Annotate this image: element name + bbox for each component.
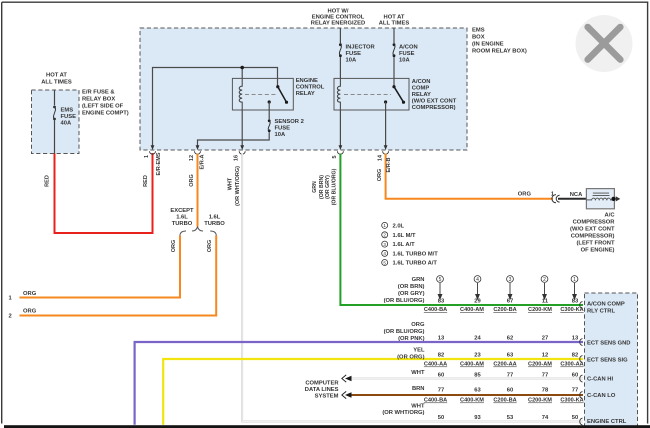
wire: A/CON relay common to pin 14 — [385, 102, 387, 148]
svg-text:62: 62 — [507, 336, 513, 342]
svg-text:SENSOR 2: SENSOR 2 — [275, 119, 304, 125]
svg-text:4: 4 — [476, 277, 479, 283]
svg-text:78: 78 — [542, 388, 549, 394]
label: HOT AT ALL TIMES (top) — [379, 15, 410, 27]
svg-text:RELAY: RELAY — [296, 91, 315, 97]
svg-text:A/CON: A/CON — [412, 79, 431, 85]
svg-text:63: 63 — [507, 353, 514, 359]
svg-text:ORG: ORG — [189, 174, 195, 187]
svg-text:C400-AM: C400-AM — [460, 362, 484, 368]
legend circled numbers — [382, 222, 388, 265]
svg-text:82: 82 — [438, 353, 444, 359]
mechanical link (dashed) — [245, 94, 276, 96]
svg-text:COMPRESSOR: COMPRESSOR — [573, 220, 616, 226]
svg-text:93: 93 — [474, 415, 481, 421]
svg-text:24: 24 — [474, 336, 481, 342]
svg-text:(IN ENGINE: (IN ENGINE — [472, 42, 504, 48]
variant arrows above green wire — [438, 283, 576, 299]
svg-text:C-CAN LO: C-CAN LO — [587, 393, 616, 399]
svg-text:TURBO: TURBO — [172, 221, 193, 227]
svg-text:FUSE: FUSE — [399, 51, 415, 57]
junction: top feed wire — [240, 66, 244, 70]
svg-text:A/CON COMP: A/CON COMP — [587, 302, 625, 308]
pin arrows at EMS box edge — [151, 145, 388, 150]
svg-text:14: 14 — [377, 154, 383, 161]
svg-text:83: 83 — [572, 299, 579, 305]
svg-text:2: 2 — [543, 277, 546, 283]
label: HOT W/ ENGINE CONTROL RELAY ENERGIZED — [311, 9, 365, 27]
svg-text:E/R-B: E/R-B — [386, 157, 392, 172]
A/C compressor M1 box — [586, 189, 614, 209]
svg-text:13: 13 — [572, 336, 579, 342]
switch contacts of A/CON comp relay — [384, 85, 405, 104]
svg-text:53: 53 — [507, 415, 514, 421]
bottom connector pin numbers — [438, 299, 579, 422]
svg-text:2: 2 — [9, 314, 12, 320]
svg-text:C200-BA: C200-BA — [493, 398, 516, 404]
svg-text:RELAY ENERGIZED: RELAY ENERGIZED — [311, 21, 365, 27]
svg-text:85: 85 — [474, 372, 481, 378]
svg-text:FUSE: FUSE — [346, 51, 362, 57]
svg-text:COMPUTER: COMPUTER — [305, 381, 339, 387]
label: EXCEPT 1.6L TURBO — [170, 208, 194, 227]
svg-text:77: 77 — [438, 388, 444, 394]
svg-text:NCA: NCA — [570, 192, 583, 198]
svg-text:C300-KA: C300-KA — [560, 398, 583, 404]
svg-text:C300-KA: C300-KA — [560, 307, 583, 313]
svg-text:BRN: BRN — [412, 386, 425, 392]
relay K1: ENGINE CONTROL RELAY box — [232, 78, 293, 110]
connector names row 1 (GRN) — [424, 307, 584, 404]
svg-text:(OR BLU/ORG): (OR BLU/ORG) — [384, 298, 425, 304]
fuse INJECTOR 10A feed wire — [339, 28, 341, 43]
wire: sensor 2 fuse to pin 12 — [198, 132, 270, 147]
svg-text:1: 1 — [383, 223, 386, 228]
variant circled numbers 5 4 3 2 1 — [437, 276, 578, 283]
svg-text:(OR WHT/ORG): (OR WHT/ORG) — [235, 166, 241, 206]
switch contacts of engine control relay — [268, 85, 289, 104]
svg-text:5: 5 — [439, 277, 442, 283]
svg-text:(LEFT SIDE OF: (LEFT SIDE OF — [82, 104, 124, 110]
svg-text:OF ENGINE): OF ENGINE) — [581, 248, 615, 254]
svg-text:29: 29 — [474, 299, 481, 305]
svg-text:C400-KM: C400-KM — [460, 398, 484, 404]
splice symbol (branch) — [180, 227, 216, 236]
svg-text:C400-BA: C400-BA — [424, 398, 447, 404]
svg-text:ORG: ORG — [171, 240, 177, 253]
wire: injector fuse to A/CON relay coil — [339, 57, 341, 78]
svg-text:63: 63 — [474, 388, 481, 394]
svg-text:E/R-A: E/R-A — [200, 154, 206, 169]
wire GRN: pin 5 to ECM A/CON COMP RLY CTRL — [340, 154, 583, 306]
label: 1.6L TURBO — [204, 215, 225, 228]
svg-text:1.6L M/T: 1.6L M/T — [393, 233, 417, 239]
coil of engine control relay — [239, 78, 242, 110]
svg-text:ALL TIMES: ALL TIMES — [41, 80, 72, 86]
svg-text:13: 13 — [438, 336, 445, 342]
svg-text:82: 82 — [572, 353, 578, 359]
wire: battery feed into EMS fuse — [54, 90, 56, 105]
label: HOT AT ALL TIMES (left) — [41, 73, 72, 86]
legend text — [393, 223, 439, 266]
svg-text:ORG: ORG — [23, 291, 37, 297]
svg-text:(OR WHT/ORG): (OR WHT/ORG) — [382, 410, 424, 416]
svg-text:(W/O EXT CONT: (W/O EXT CONT — [412, 99, 457, 105]
svg-text:WHT: WHT — [228, 177, 234, 190]
svg-text:COMP: COMP — [412, 86, 430, 92]
svg-text:A/C: A/C — [605, 213, 616, 219]
ECM pin cups — [580, 302, 583, 426]
svg-text:50: 50 — [572, 415, 578, 421]
svg-text:12: 12 — [542, 353, 548, 359]
wire: engine control relay coil to pin 16 — [241, 110, 243, 148]
svg-text:COMPRESSOR): COMPRESSOR) — [412, 105, 456, 111]
svg-text:60: 60 — [438, 372, 444, 378]
svg-text:10A: 10A — [399, 58, 410, 64]
svg-text:1.6L: 1.6L — [209, 215, 221, 221]
svg-text:(OR BRN): (OR BRN) — [319, 175, 325, 199]
svg-text:EMS: EMS — [61, 108, 74, 114]
svg-text:1.6L: 1.6L — [176, 215, 188, 221]
svg-text:C200-KM: C200-KM — [528, 307, 552, 313]
wire WHT: C-CAN HI — [351, 378, 583, 380]
inline connector at compressor — [552, 195, 560, 203]
svg-text:10A: 10A — [275, 132, 286, 138]
svg-text:(OR PNK): (OR PNK) — [398, 336, 424, 342]
svg-text:ALL TIMES: ALL TIMES — [379, 21, 410, 27]
wire: A/CON relay coil to pin 5 — [339, 110, 341, 148]
svg-text:23: 23 — [474, 353, 481, 359]
svg-text:C400-AM: C400-AM — [460, 307, 484, 313]
svg-text:77: 77 — [542, 372, 548, 378]
off-page arrow C-CAN LO — [345, 392, 352, 397]
svg-text:C200-BA: C200-BA — [493, 307, 516, 313]
svg-text:1.6L TURBO A/T: 1.6L TURBO A/T — [393, 261, 438, 267]
wire ORG branch 2 (1.6L turbo) — [20, 236, 217, 316]
wire ORG: pin 12 down to splice — [197, 154, 199, 227]
wire WHT: pin 16 to ECM ENGINE CTRL RLY CTRL — [242, 154, 583, 422]
svg-text:27: 27 — [542, 336, 548, 342]
svg-text:RED: RED — [143, 175, 149, 187]
svg-text:ORG: ORG — [207, 240, 213, 253]
svg-text:EXCEPT: EXCEPT — [170, 208, 194, 214]
svg-text:ECT SENS SIG: ECT SENS SIG — [587, 358, 628, 364]
svg-text:BOX: BOX — [472, 35, 485, 41]
svg-text:C200-AM: C200-AM — [528, 362, 552, 368]
wire: relay common to sensor 2 fuse — [268, 102, 270, 119]
svg-text:60: 60 — [507, 388, 513, 394]
fuse SENSOR 2 10A — [268, 119, 271, 132]
svg-text:1.6L A/T: 1.6L A/T — [393, 242, 416, 248]
EMS box (engine room relay box, dashed) — [140, 28, 467, 150]
svg-text:67: 67 — [507, 299, 513, 305]
svg-text:HOT AT: HOT AT — [46, 73, 67, 79]
label: GRN wire colors (bottom) — [384, 277, 425, 304]
svg-text:(OR BLU/ORG): (OR BLU/ORG) — [332, 168, 338, 205]
fuse INJECTOR 10A — [339, 43, 342, 57]
svg-text:GRN: GRN — [312, 181, 318, 193]
svg-text:C400-AA: C400-AA — [424, 362, 447, 368]
svg-text:3: 3 — [383, 242, 386, 247]
svg-text:74: 74 — [542, 415, 549, 421]
svg-text:FUSE: FUSE — [61, 114, 77, 120]
svg-text:77: 77 — [572, 388, 578, 394]
label: COMPUTER DATA LINES SYSTEM — [305, 381, 340, 400]
compressor output node — [611, 197, 615, 201]
svg-text:ORG: ORG — [518, 192, 532, 198]
svg-text:16: 16 — [234, 155, 240, 161]
svg-text:ORG: ORG — [377, 169, 383, 182]
svg-text:C-CAN HI: C-CAN HI — [587, 377, 613, 383]
svg-text:C200-KM: C200-KM — [528, 398, 552, 404]
svg-text:EMS: EMS — [472, 28, 485, 34]
svg-text:3: 3 — [509, 277, 512, 283]
E/R fuse & relay box (left, dashed) — [32, 90, 80, 154]
svg-text:E/R FUSE &: E/R FUSE & — [82, 90, 115, 96]
svg-text:YEL: YEL — [413, 348, 425, 354]
svg-text:WHT: WHT — [411, 370, 425, 376]
svg-text:(OR BRN): (OR BRN) — [398, 284, 425, 290]
svg-text:DATA LINES: DATA LINES — [305, 387, 339, 393]
svg-text:4: 4 — [383, 251, 386, 256]
svg-text:ENGINE CTRL: ENGINE CTRL — [587, 419, 627, 425]
svg-text:(OR ORG): (OR ORG) — [397, 355, 424, 361]
svg-text:2.0L: 2.0L — [393, 223, 405, 229]
wire BRN: C-CAN LO — [351, 394, 583, 396]
ECM box (dashed, bottom right) — [585, 293, 638, 428]
svg-text:5: 5 — [383, 260, 386, 265]
off-page arrow C-CAN HI — [345, 376, 352, 381]
svg-text:11: 11 — [542, 299, 549, 305]
svg-text:RELAY BOX: RELAY BOX — [82, 97, 115, 103]
mechanical link (dashed) — [344, 94, 391, 96]
bottom window bar — [4, 425, 650, 428]
wire RED: EMS fuse to EMS box pin 1 — [55, 153, 153, 233]
svg-text:1.6L TURBO M/T: 1.6L TURBO M/T — [393, 251, 439, 257]
svg-text:C200-AA: C200-AA — [493, 362, 516, 368]
wire PPL: ECT SENS GND — [135, 342, 583, 425]
fuse A/CON 10A — [393, 43, 396, 57]
svg-text:TURBO: TURBO — [204, 221, 225, 227]
compressor clutch coil symbol — [586, 193, 613, 200]
svg-text:1: 1 — [573, 277, 576, 283]
svg-text:RED: RED — [45, 175, 51, 187]
svg-text:E/R-EMS: E/R-EMS — [156, 152, 162, 175]
svg-text:ENGINE COMPT): ENGINE COMPT) — [82, 111, 129, 117]
svg-text:A/CON: A/CON — [399, 45, 418, 51]
svg-text:WHT: WHT — [411, 404, 425, 410]
svg-text:ORG: ORG — [411, 322, 425, 328]
svg-text:COMPRESSOR): COMPRESSOR) — [571, 234, 615, 240]
svg-text:ROOM RELAY BOX): ROOM RELAY BOX) — [472, 49, 527, 55]
wire: A/CON fuse to A/CON relay switch — [393, 57, 395, 86]
label: A/C COMPRESSOR — [570, 213, 615, 254]
svg-text:FUSE: FUSE — [275, 126, 291, 132]
label: ORG wire colors (ECT SENS GND) — [384, 322, 425, 342]
svg-text:10A: 10A — [346, 58, 357, 64]
wire NCA: connector to compressor — [558, 198, 586, 200]
svg-text:ECT SENS GND: ECT SENS GND — [587, 341, 630, 347]
svg-text:C300-AA: C300-AA — [560, 362, 583, 368]
wire ORG branch 1 (except 1.6L turbo) — [20, 236, 181, 298]
svg-text:SYSTEM: SYSTEM — [315, 394, 339, 400]
fuse A/CON 10A feed wire — [393, 28, 395, 43]
svg-text:C400-BA: C400-BA — [424, 307, 447, 313]
svg-text:83: 83 — [438, 299, 445, 305]
svg-text:(OR BLU/ORG): (OR BLU/ORG) — [384, 329, 425, 335]
wire YEL: ECT SENS SIG — [163, 359, 583, 425]
wire ORG: pin 14 to A/C compressor — [386, 154, 553, 199]
label: YEL wire colors — [397, 348, 425, 361]
pin connector cups — [150, 151, 389, 154]
ECM pin function labels — [587, 302, 630, 428]
svg-text:2: 2 — [383, 233, 386, 238]
svg-text:(LEFT FRONT: (LEFT FRONT — [577, 241, 615, 247]
rotated wire labels — [45, 152, 393, 252]
svg-text:(W/O EXT CONT: (W/O EXT CONT — [570, 227, 615, 233]
svg-text:ORG: ORG — [23, 309, 37, 315]
wire: EMS fuse output (gray, inside box) — [54, 120, 56, 153]
svg-text:GRN: GRN — [412, 277, 425, 283]
svg-text:5: 5 — [332, 155, 338, 158]
svg-text:12: 12 — [189, 155, 195, 161]
fuse EMS 40A — [53, 106, 56, 121]
svg-text:RLY CTRL: RLY CTRL — [587, 309, 615, 315]
svg-text:77: 77 — [507, 372, 513, 378]
svg-text:RELAY: RELAY — [412, 92, 431, 98]
svg-text:INJECTOR: INJECTOR — [346, 45, 376, 51]
svg-text:50: 50 — [438, 415, 444, 421]
svg-text:ENGINE: ENGINE — [296, 78, 318, 84]
svg-text:(OR GRY): (OR GRY) — [398, 291, 425, 297]
coil of A/CON comp relay — [337, 78, 340, 110]
node: EMS box internal feed wire (pin1 to relay) — [153, 68, 278, 148]
svg-text:40A: 40A — [61, 121, 72, 127]
label: WHT (OR WHT/ORG) bottom — [382, 404, 425, 417]
relay K2: A/CON COMP RELAY box — [334, 78, 409, 110]
svg-text:CONTROL: CONTROL — [296, 85, 325, 91]
svg-text:1: 1 — [144, 155, 150, 158]
close button — [576, 15, 633, 72]
svg-text:60: 60 — [572, 372, 578, 378]
svg-text:(OR GRY): (OR GRY) — [325, 175, 331, 199]
